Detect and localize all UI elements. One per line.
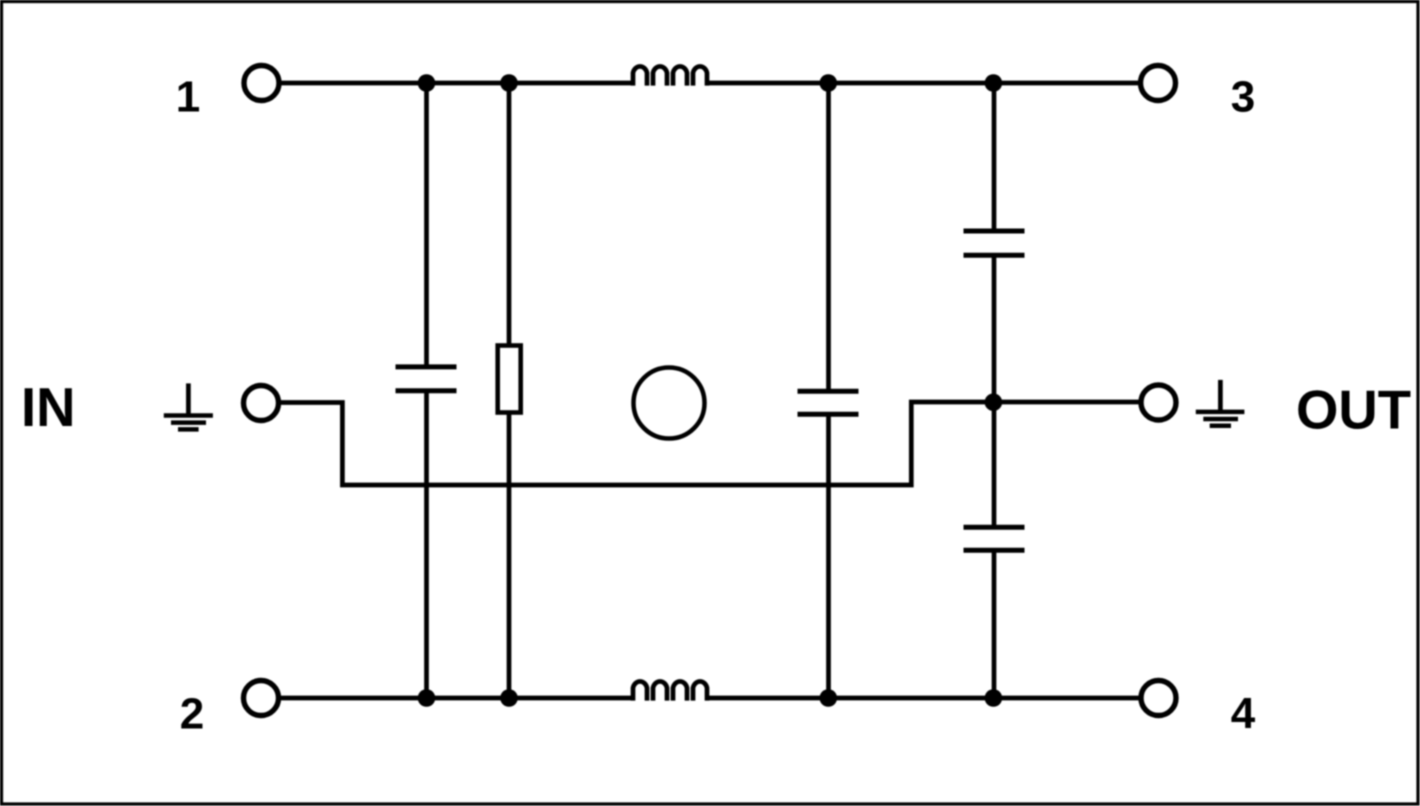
svg-text:1: 1 [176, 73, 200, 122]
capacitor Cx2 [798, 391, 859, 414]
wire Cx1 lower lead [424, 391, 429, 698]
svg-text:OUT: OUT [1296, 380, 1411, 441]
terminal 4 [1141, 681, 1176, 716]
junction bottom line2 Cx2 [820, 689, 838, 707]
inductor L1a (top winding) [633, 66, 707, 85]
wire earth net IN-to-OUT [279, 402, 1141, 485]
svg-text:IN: IN [21, 377, 76, 438]
terminal 2 [244, 681, 279, 716]
resistor R1 [498, 346, 521, 413]
terminal 1 [244, 66, 279, 101]
capacitor Cy2 [964, 527, 1025, 550]
capacitor Cx1 [396, 367, 457, 391]
svg-text:2: 2 [180, 690, 204, 739]
junction bottom line2 Cy2 [985, 689, 1003, 707]
terminal OUT earth [1141, 385, 1176, 420]
wire line1 top-left [279, 81, 633, 86]
svg-text:3: 3 [1231, 73, 1255, 122]
junction top line1 Cx1 [418, 74, 436, 92]
wire line1 top-right [707, 81, 1141, 86]
inductor L1b (bottom winding) [633, 681, 707, 700]
svg-text:4: 4 [1231, 689, 1256, 738]
terminal 3 [1141, 66, 1176, 101]
wire Cx2 upper lead [826, 83, 831, 391]
wire R1 upper lead [507, 83, 512, 346]
wire line2 bottom-right [707, 696, 1141, 701]
wire Cx2 lower lead [826, 414, 831, 698]
terminal IN earth [244, 386, 279, 421]
wire line2 bottom-left [279, 696, 634, 701]
wire Cy1 upper lead [992, 83, 997, 231]
junction bottom line2 R1 [500, 689, 518, 707]
capacitor Cy1 [964, 231, 1025, 255]
junction top line1 R1 [500, 74, 518, 92]
junction top line1 Cy1 [985, 74, 1003, 92]
wire Cy1-to-Cy2 earth lead [992, 255, 997, 527]
junction bottom line2 Cx1 [418, 689, 436, 707]
junction top line1 Cx2 [820, 74, 838, 92]
wire Cy2 lower lead [992, 550, 997, 698]
junction earth Cy mid [985, 393, 1003, 411]
ground IN [164, 383, 213, 429]
choke core L1 [634, 368, 705, 439]
ground OUT [1196, 380, 1245, 426]
wire R1 lower lead [507, 413, 512, 699]
wire Cx1 upper lead [424, 83, 429, 367]
